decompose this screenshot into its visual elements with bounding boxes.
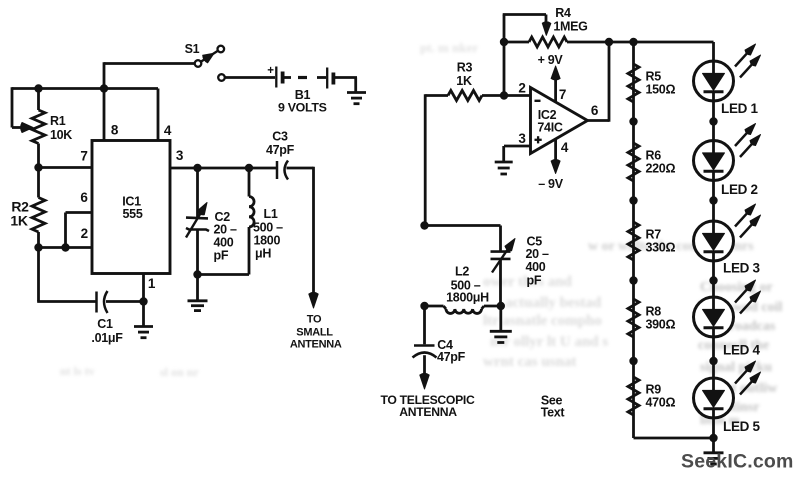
svg-text:555: 555 <box>123 207 143 221</box>
svg-text:L2: L2 <box>455 264 469 278</box>
svg-text:S1: S1 <box>185 42 200 56</box>
svg-text:nt ls tv: nt ls tv <box>60 364 95 378</box>
svg-text:R8: R8 <box>646 305 662 319</box>
svg-text:R3: R3 <box>457 60 473 74</box>
svg-text:7: 7 <box>559 87 566 102</box>
svg-text:SMALL: SMALL <box>296 326 333 338</box>
svg-text:LED 3: LED 3 <box>723 261 761 276</box>
svg-text:1: 1 <box>148 276 156 291</box>
svg-text:74IC: 74IC <box>537 120 562 134</box>
svg-text:SeekIC.com: SeekIC.com <box>681 451 794 473</box>
svg-text:2: 2 <box>518 81 525 96</box>
svg-text:ntr ollyr lt U and s: ntr ollyr lt U and s <box>490 334 608 350</box>
svg-text:220Ω: 220Ω <box>646 162 676 176</box>
svg-text:Text: Text <box>541 406 566 420</box>
svg-text:R5: R5 <box>646 70 662 84</box>
svg-text:+ 9V: + 9V <box>538 53 564 67</box>
svg-text:2: 2 <box>81 226 88 241</box>
svg-text:pt. m nker: pt. m nker <box>420 40 478 55</box>
svg-text:47pF: 47pF <box>437 350 466 364</box>
svg-text:LED 2: LED 2 <box>721 182 758 197</box>
svg-text:actually bestad: actually bestad <box>505 295 602 311</box>
svg-text:1800: 1800 <box>254 233 281 247</box>
svg-text:150Ω: 150Ω <box>646 83 676 97</box>
svg-text:400: 400 <box>214 236 234 250</box>
svg-text:10K: 10K <box>50 128 72 142</box>
svg-text:1800μH: 1800μH <box>446 291 489 305</box>
svg-text:C1: C1 <box>97 317 113 331</box>
svg-text:μH: μH <box>255 247 271 261</box>
svg-text:3: 3 <box>518 131 526 146</box>
svg-text:4: 4 <box>561 140 569 155</box>
svg-text:wrnt cas usnat: wrnt cas usnat <box>483 354 576 370</box>
svg-text:– 9V: – 9V <box>538 177 563 191</box>
svg-text:1K: 1K <box>10 212 27 228</box>
svg-text:3: 3 <box>176 148 184 163</box>
svg-text:R7: R7 <box>646 228 662 242</box>
svg-text:pF: pF <box>214 249 229 263</box>
svg-text:400: 400 <box>526 260 546 274</box>
svg-text:470Ω: 470Ω <box>646 396 676 410</box>
svg-text:sl on nr: sl on nr <box>160 365 199 379</box>
svg-text:20 –: 20 – <box>214 223 237 237</box>
svg-text:LED 5: LED 5 <box>723 419 761 434</box>
svg-text:ANTENNA: ANTENNA <box>399 405 457 419</box>
svg-text:20 –: 20 – <box>526 247 549 261</box>
svg-text:8: 8 <box>111 123 119 138</box>
svg-text:R6: R6 <box>646 149 662 163</box>
svg-text:R4: R4 <box>555 6 571 20</box>
svg-text:330Ω: 330Ω <box>646 241 676 255</box>
svg-text:+: + <box>267 65 274 77</box>
svg-text:7: 7 <box>80 149 87 164</box>
svg-text:R1: R1 <box>50 114 66 128</box>
svg-text:47pF: 47pF <box>266 143 295 157</box>
svg-text:R9: R9 <box>646 383 662 397</box>
svg-text:LED 1: LED 1 <box>721 101 759 116</box>
svg-text:pF: pF <box>527 274 542 288</box>
svg-text:9 VOLTS: 9 VOLTS <box>278 100 327 114</box>
svg-text:1MEG: 1MEG <box>553 19 587 33</box>
svg-text:500 –: 500 – <box>253 220 283 234</box>
svg-text:390Ω: 390Ω <box>646 318 676 332</box>
svg-text:C3: C3 <box>272 129 288 143</box>
svg-text:ANTENNA: ANTENNA <box>290 339 342 351</box>
svg-text:L1: L1 <box>264 207 278 221</box>
svg-text:6: 6 <box>80 190 88 205</box>
svg-text:6: 6 <box>591 103 599 118</box>
svg-text:1K: 1K <box>456 74 472 88</box>
svg-text:4: 4 <box>164 123 172 138</box>
svg-text:LED 4: LED 4 <box>723 343 761 358</box>
svg-text:TO: TO <box>307 313 322 325</box>
svg-text:.01μF: .01μF <box>91 331 123 345</box>
